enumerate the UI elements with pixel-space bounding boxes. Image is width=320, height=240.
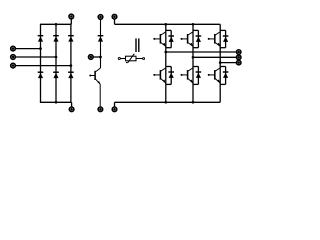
diode D1 — [38, 36, 44, 42]
wire Q5 cell loop bottom — [220, 47, 225, 49]
wire rectifier DC+ rail — [40, 23, 71, 25]
terminal P2 (inverter DC+) — [112, 14, 117, 19]
wire Q4 cell loop top — [193, 66, 198, 68]
diode D7 (brake) — [98, 36, 104, 42]
wire input R lead — [15, 48, 40, 50]
wire terminal P stub — [70, 19, 72, 25]
diode D2 — [53, 36, 59, 42]
node input T junction — [70, 64, 73, 67]
wire inverter leg U — [165, 24, 167, 102]
node rectifier bottom rail junction — [55, 101, 58, 104]
wire Q1 diode branch — [170, 30, 172, 47]
transistor Q5 (IGBT) — [208, 32, 221, 47]
wire input S lead — [15, 56, 56, 58]
diode D16 (freewheel of Q6) — [223, 72, 229, 78]
terminal N2 (inverter DC-) — [112, 107, 117, 112]
wire phase W output — [220, 62, 236, 64]
wire terminal P2 stub — [114, 19, 116, 24]
node input S junction — [55, 56, 58, 59]
terminal N — [69, 107, 74, 112]
node brake junction — [99, 56, 102, 59]
wire rectifier leg 1 — [40, 24, 42, 102]
wire phase U output — [166, 51, 237, 53]
diode D13 (freewheel of Q3) — [196, 36, 202, 42]
transistor Q6 (IGBT) — [208, 68, 221, 83]
wire Q3 cell loop top — [193, 29, 198, 31]
node DC+ rail junction U — [164, 23, 167, 26]
terminal P — [69, 14, 74, 19]
wire Q5 cell loop top — [220, 29, 225, 31]
transistor Q1 (IGBT) — [153, 32, 166, 47]
wire brake emitter line — [99, 85, 101, 108]
wire inverter DC- rail — [115, 101, 221, 103]
node phase W tap — [219, 61, 222, 64]
wire rectifier leg 3 — [70, 24, 72, 102]
wire phase V output — [193, 56, 236, 58]
node DC- rail junction V — [192, 101, 195, 104]
wire inverter DC+ rail — [115, 23, 221, 25]
wire Q5 diode branch — [225, 30, 227, 47]
transistor Q7 (brake IGBT) — [89, 68, 100, 85]
wire input T lead — [15, 65, 71, 67]
node rectifier top rail junction — [55, 23, 58, 26]
terminal T (AC input) — [11, 63, 16, 68]
wire terminal N stub — [71, 102, 73, 107]
diode D14 (freewheel of Q4) — [196, 72, 202, 78]
wire rectifier DC- rail — [40, 101, 72, 103]
terminal NB (brake emitter) — [98, 107, 103, 112]
wire inverter leg W — [219, 24, 221, 102]
wire brake upper line — [100, 19, 102, 68]
terminal U (AC output) — [236, 50, 241, 55]
node DC+ rail junction V — [192, 23, 195, 26]
wire terminal N2 stub — [114, 102, 116, 107]
terminal R (AC input) — [11, 46, 16, 51]
diode D12 (freewheel of Q2) — [168, 72, 174, 78]
diode D6 — [68, 72, 74, 78]
wire Q6 cell loop bottom — [220, 83, 225, 85]
transistor Q3 (IGBT) — [181, 32, 194, 47]
wire Q1 cell loop bottom — [166, 47, 171, 49]
wire brake terminal lead — [93, 56, 100, 58]
transistor Q4 (IGBT) — [181, 68, 194, 83]
terminal DF (brake diode) — [98, 15, 103, 20]
wire Q4 cell loop bottom — [193, 83, 198, 85]
terminal W (AC output) — [236, 60, 241, 65]
thermistor TH1 (NTC temperature sensor) — [118, 54, 144, 63]
wire rectifier leg 2 — [55, 24, 57, 102]
wire Q2 diode branch — [170, 67, 172, 85]
wire Q3 cell loop bottom — [193, 47, 198, 49]
wire Q6 diode branch — [225, 67, 227, 85]
wire Q2 cell loop bottom — [166, 83, 171, 85]
diode D15 (freewheel of Q5) — [223, 36, 229, 42]
isolation bars (baseplate symbol) — [136, 38, 139, 52]
wire Q4 diode branch — [197, 67, 199, 85]
wire Q6 cell loop top — [220, 66, 225, 68]
terminal S (AC input) — [11, 55, 16, 60]
node phase V tap — [192, 56, 195, 59]
node phase U tap — [164, 51, 167, 54]
diode D11 (freewheel of Q1) — [168, 36, 174, 42]
transistor Q2 (IGBT) — [153, 68, 166, 83]
node input R junction — [39, 47, 42, 50]
wire Q2 cell loop top — [166, 66, 171, 68]
wire Q1 cell loop top — [166, 29, 171, 31]
wire inverter leg V — [192, 24, 194, 102]
terminal B (brake) — [89, 55, 94, 60]
diode D3 — [68, 36, 74, 42]
wire Q3 diode branch — [197, 30, 199, 47]
diode D4 — [38, 72, 44, 78]
diode D5 — [53, 72, 59, 78]
node DC- rail junction U — [164, 101, 167, 104]
terminal V (AC output) — [236, 55, 241, 60]
